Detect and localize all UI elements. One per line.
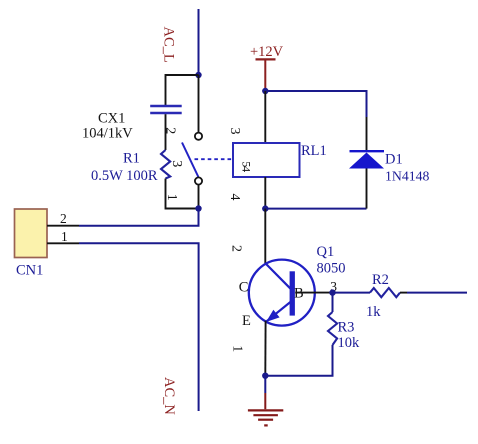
capacitor CX1 plates	[150, 106, 182, 113]
ground	[248, 393, 283, 425]
svg-text:B: B	[294, 286, 304, 302]
svg-text:104/1kV: 104/1kV	[82, 126, 133, 142]
wire down to ground	[264, 376, 266, 393]
relay contact top circle	[195, 133, 202, 140]
svg-text:0.5W 100R: 0.5W 100R	[91, 168, 158, 184]
transistor Q1 emitter stroke with arrow	[266, 302, 291, 323]
node junction emitter / R3 / ground	[262, 373, 268, 379]
wire +12V down	[264, 61, 266, 92]
wire capacitor bottom to R1 top	[165, 114, 167, 150]
svg-text:1N4148: 1N4148	[385, 169, 430, 184]
node junction relay pin4 / diode anode	[262, 205, 268, 211]
wire contact bottom pin	[198, 185, 200, 209]
node junction base / R2 / R3	[329, 289, 335, 295]
svg-text:AC_N: AC_N	[161, 377, 177, 415]
svg-text:2: 2	[229, 245, 244, 252]
resistor R2 zigzag	[370, 288, 400, 297]
power +12V bar	[256, 58, 276, 60]
wire collector pin from relay junction	[264, 209, 266, 265]
svg-text:2: 2	[163, 127, 178, 134]
svg-text:8050: 8050	[317, 260, 346, 276]
svg-text:R1: R1	[123, 151, 140, 167]
svg-text:E: E	[242, 313, 251, 329]
wire CN1 pin2 stub	[47, 225, 79, 227]
svg-text:CN1: CN1	[16, 263, 43, 279]
wire top branch to capacitor	[166, 75, 199, 105]
dotted link contact to relay coil	[195, 158, 234, 160]
wire top to diode	[265, 91, 366, 117]
svg-text:R3: R3	[338, 320, 355, 336]
relay contact arm	[182, 143, 198, 178]
svg-text:1: 1	[164, 194, 179, 201]
wire relay pin3	[264, 91, 266, 143]
wire R3 bottom to emitter junction	[265, 345, 332, 376]
wire R2 right to edge	[400, 292, 407, 294]
svg-text:1k: 1k	[366, 304, 381, 320]
svg-text:2: 2	[60, 211, 67, 226]
wire contact top pin	[198, 75, 200, 133]
resistor R3 zigzag	[328, 312, 337, 345]
wire AC_L vertical from top	[198, 9, 200, 75]
transistor Q1 circle	[249, 260, 315, 326]
transistor Q1 collector stroke	[266, 264, 291, 290]
svg-text:3: 3	[169, 160, 184, 167]
node junction +12V / relay / diode	[262, 88, 268, 94]
svg-text:4: 4	[227, 194, 242, 201]
svg-text:54: 54	[240, 161, 254, 172]
svg-text:CX1: CX1	[98, 111, 125, 127]
wire relay pin4	[264, 177, 266, 209]
node junction AC_L / contact / CX1 branch	[195, 72, 201, 78]
svg-text:+12V: +12V	[250, 44, 284, 60]
svg-text:R2: R2	[372, 272, 389, 288]
wire diode anode pin	[366, 168, 368, 209]
relay coil RL1 box	[233, 143, 300, 177]
wire base pin	[295, 292, 332, 294]
wire base junction to R2	[333, 292, 371, 294]
svg-text:D1: D1	[385, 152, 403, 168]
wire emitter pin down	[264, 321, 266, 376]
svg-text:Q1: Q1	[317, 244, 335, 260]
relay contact bottom circle	[195, 177, 202, 184]
svg-text:1: 1	[230, 345, 245, 352]
node junction contact bottom / CN1 pin2	[195, 205, 201, 211]
svg-text:10k: 10k	[338, 335, 361, 351]
svg-text:3: 3	[227, 128, 242, 135]
resistor R1 zigzag	[161, 150, 170, 179]
wire CN1 pin1 to AC_N	[79, 243, 199, 411]
wire bottom to diode anode	[265, 208, 366, 210]
diode D1	[349, 151, 384, 168]
svg-text:C: C	[239, 279, 249, 295]
wire R1 bottom loop to junction	[166, 179, 199, 209]
svg-text:RL1: RL1	[301, 143, 327, 159]
wire diode cathode pin	[366, 117, 368, 150]
connector CN1 body	[15, 209, 48, 258]
wire CN1 pin2 to contact junction	[79, 209, 199, 226]
svg-text:1: 1	[61, 229, 68, 244]
wire base junction down to R3	[332, 293, 334, 312]
wire CN1 pin1 stub	[47, 242, 79, 244]
transistor Q1 base bar	[290, 271, 295, 315]
svg-text:AC_L: AC_L	[161, 27, 177, 63]
